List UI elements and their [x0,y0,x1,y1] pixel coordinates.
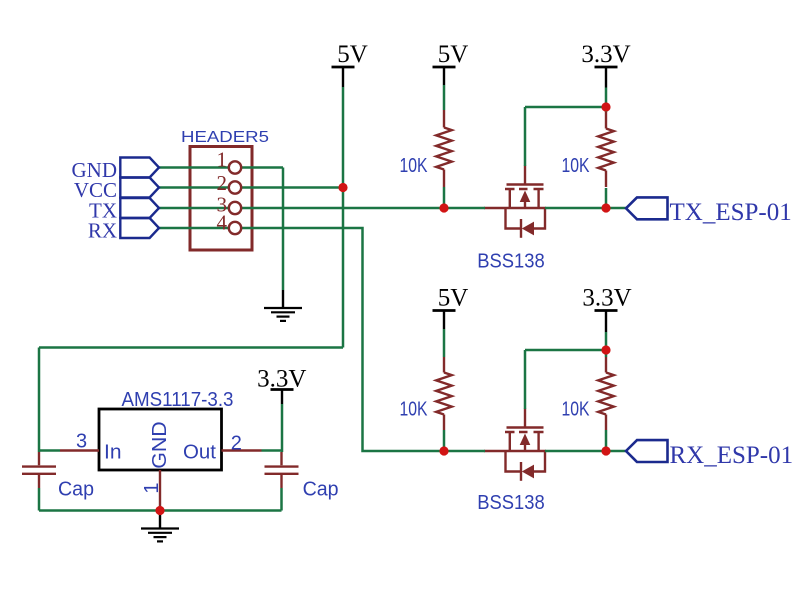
svg-text:5V: 5V [337,41,368,68]
svg-text:GND: GND [149,421,171,469]
svg-text:AMS1117-3.3: AMS1117-3.3 [122,389,234,411]
svg-text:2: 2 [217,171,228,195]
svg-text:4: 4 [217,211,228,235]
svg-text:BSS138: BSS138 [477,251,545,273]
svg-text:RX: RX [88,219,117,243]
svg-text:5V: 5V [438,41,469,68]
svg-text:Cap: Cap [58,479,94,501]
svg-text:RX_ESP-01: RX_ESP-01 [670,442,794,469]
svg-text:1: 1 [141,482,163,493]
svg-text:Cap: Cap [303,479,339,501]
svg-text:3.3V: 3.3V [257,366,306,393]
svg-text:HEADER5: HEADER5 [181,129,269,146]
svg-text:3.3V: 3.3V [582,285,631,312]
svg-text:3.3V: 3.3V [581,41,630,68]
svg-text:Out: Out [183,442,216,464]
svg-text:In: In [104,442,122,464]
svg-text:10K: 10K [562,399,591,421]
svg-text:2: 2 [231,433,242,455]
svg-text:5V: 5V [438,285,469,312]
svg-text:10K: 10K [400,399,429,421]
svg-text:BSS138: BSS138 [477,492,545,514]
svg-text:TX_ESP-01: TX_ESP-01 [670,199,792,226]
svg-text:3: 3 [76,431,87,453]
svg-text:10K: 10K [562,155,591,177]
svg-text:10K: 10K [400,155,429,177]
svg-text:1: 1 [217,148,228,172]
